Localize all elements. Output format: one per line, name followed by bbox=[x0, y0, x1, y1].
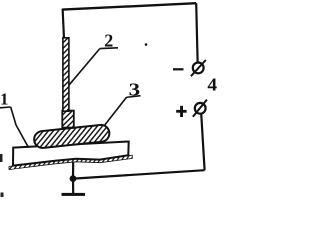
plus sign bbox=[176, 106, 186, 117]
left edge artifact bbox=[0, 154, 3, 162]
wire junction to ground bbox=[72, 179, 74, 194]
label 1 leader bbox=[11, 107, 29, 148]
electrode foot bbox=[62, 111, 74, 128]
label 2 underline bbox=[100, 47, 118, 50]
minus sign bbox=[173, 68, 184, 70]
wire from electrode top to top-left corner bbox=[63, 9, 64, 39]
svg-text:4: 4 bbox=[207, 75, 217, 95]
bottom left artifact bbox=[1, 193, 4, 198]
wire bottom horizontal bbox=[74, 170, 205, 178]
electrode rod 2 bbox=[63, 38, 69, 111]
substrate plate 1 bbox=[13, 142, 129, 166]
svg-text:1: 1 bbox=[0, 90, 8, 109]
ground bar bbox=[62, 193, 86, 196]
label 1 underline bbox=[0, 106, 11, 109]
wire right vertical down to minus terminal bbox=[196, 3, 197, 61]
label 2 leader bbox=[69, 49, 100, 86]
sample blob 3 bbox=[33, 124, 110, 149]
wire top horizontal bbox=[63, 3, 197, 9]
terminal minus U-top bbox=[191, 60, 206, 76]
junction dot bbox=[70, 175, 77, 182]
ink speck bbox=[145, 43, 148, 46]
terminal plus bottom bbox=[193, 100, 207, 117]
wire plate to junction bbox=[72, 161, 74, 179]
label 3 underline bbox=[127, 96, 141, 98]
wire from plus terminal down bbox=[201, 113, 204, 170]
hatched layer under plate bbox=[9, 155, 132, 169]
label 3 leader bbox=[104, 97, 126, 125]
